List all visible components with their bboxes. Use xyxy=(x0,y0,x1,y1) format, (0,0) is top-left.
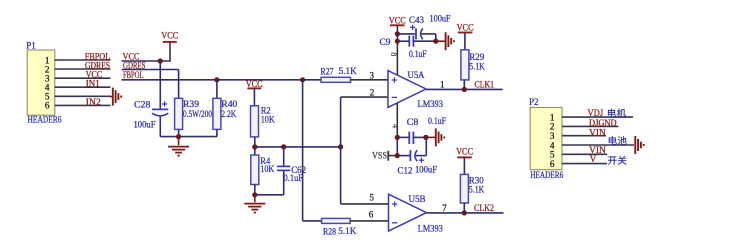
C28 plus sign xyxy=(162,101,167,106)
svg-text:0.1uF: 0.1uF xyxy=(428,116,446,126)
wire inverting vertical xyxy=(340,97,342,204)
svg-text:R29: R29 xyxy=(469,52,484,62)
wire C62 return riser xyxy=(283,170,285,194)
wire U5A pin8 xyxy=(396,41,398,75)
P2 pin 1 wire xyxy=(562,116,633,118)
U5A minus input mark xyxy=(392,96,397,98)
node rail-ground junction xyxy=(176,134,181,139)
svg-text:5: 5 xyxy=(369,193,374,203)
P1 pin 6 wire xyxy=(55,104,111,106)
wire VCC riser xyxy=(169,42,171,62)
power VCC symbol 1 xyxy=(161,31,178,42)
resistor R4 xyxy=(251,155,275,185)
wire VCC stub xyxy=(122,60,171,62)
P2 pin 5 wire xyxy=(562,153,607,155)
wire R39 bottom stub xyxy=(178,129,180,136)
svg-text:C8: C8 xyxy=(407,117,419,127)
wire VCC to R29 xyxy=(464,33,466,50)
ground right of C9 (sideways) xyxy=(436,32,454,50)
node C62 tap xyxy=(281,144,286,149)
wire C12 right xyxy=(416,155,427,157)
P1 pin 4 wire xyxy=(55,86,111,88)
wire ground rail xyxy=(160,136,217,138)
svg-text:4: 4 xyxy=(390,124,400,129)
svg-text:10K: 10K xyxy=(260,164,274,174)
wire U5A output xyxy=(426,88,503,90)
wire R28 feed vertical xyxy=(302,80,304,221)
node divider-vertical junction xyxy=(338,144,343,149)
svg-text:3: 3 xyxy=(369,71,374,81)
svg-text:C12: C12 xyxy=(398,166,413,176)
C43 plus sign xyxy=(410,25,415,30)
P1 pin 5 wire xyxy=(55,95,112,97)
svg-text:6: 6 xyxy=(45,101,50,111)
wire U5A pin2 xyxy=(341,96,388,98)
op-amp U5B body xyxy=(389,194,427,231)
U5B minus input mark xyxy=(392,222,397,224)
svg-text:100uF: 100uF xyxy=(415,165,437,175)
wire GDRES stub xyxy=(122,69,179,71)
svg-text:5.1K: 5.1K xyxy=(338,226,357,236)
svg-text:VCC: VCC xyxy=(389,15,406,25)
ground right of C8 (sideways) xyxy=(426,128,444,146)
node FBPOL-R28 junction xyxy=(300,77,305,82)
resistor R29 xyxy=(461,50,485,80)
C12 plus sign xyxy=(419,158,424,163)
svg-text:0.5W/200: 0.5W/200 xyxy=(183,109,212,119)
svg-text:LM393: LM393 xyxy=(418,224,443,234)
node C9 tap xyxy=(395,39,400,44)
node VSS-C12 junction xyxy=(395,153,400,158)
svg-text:100uF: 100uF xyxy=(430,14,451,24)
svg-text:C9: C9 xyxy=(380,37,392,47)
wire GDRES drop to R39 xyxy=(178,70,180,99)
svg-text:0.1uF: 0.1uF xyxy=(409,49,427,59)
svg-text:VIN: VIN xyxy=(589,127,606,137)
svg-text:P1: P1 xyxy=(26,41,36,51)
wire C9 right xyxy=(413,40,435,42)
svg-text:1: 1 xyxy=(440,79,445,89)
P2 pin 4 wire xyxy=(562,144,634,146)
svg-text:IN1: IN1 xyxy=(86,79,100,89)
resistor R27 xyxy=(321,66,358,82)
wire R2-R4 xyxy=(254,137,256,155)
capacitor C62 xyxy=(277,166,290,170)
wire VCC stem xyxy=(396,25,398,41)
wire C28 drop xyxy=(159,61,161,109)
svg-text:HEADER6: HEADER6 xyxy=(28,115,62,125)
svg-text:VDJ: VDJ xyxy=(588,108,604,118)
wire R4 bottom xyxy=(254,185,256,195)
wire divider to opamp xyxy=(255,146,341,148)
wire C62 top stub xyxy=(283,147,285,167)
power VCC symbol above U5A xyxy=(389,15,406,25)
svg-text:VCC: VCC xyxy=(456,146,473,156)
wire pin4 to VSS node xyxy=(396,137,398,156)
node C8-C12-ground junction xyxy=(423,135,428,140)
node pin4-C8 junction xyxy=(395,135,400,140)
wire VCC to R30 xyxy=(463,157,465,174)
wire C43 corner xyxy=(435,34,437,41)
ground below R4 xyxy=(244,195,265,213)
wire R27 to U5A pin3 xyxy=(351,79,389,81)
P1 pin 3 wire xyxy=(55,77,111,79)
resistor R40 xyxy=(213,98,238,129)
svg-text:R40: R40 xyxy=(221,99,238,109)
power VSS symbol xyxy=(372,150,397,160)
wire R40 stem xyxy=(216,80,218,99)
svg-text:6: 6 xyxy=(550,159,555,169)
capacitor C8 xyxy=(409,132,413,144)
svg-text:R27: R27 xyxy=(321,66,334,76)
connector P1 body xyxy=(27,50,55,115)
svg-text:VCC: VCC xyxy=(161,31,178,41)
svg-text:R28: R28 xyxy=(323,226,336,236)
power VCC symbol above R29 xyxy=(457,22,474,32)
label switch (Chinese) P2 pin6 xyxy=(608,156,626,165)
node output-R29 junction xyxy=(462,87,467,92)
node divider junction xyxy=(252,144,257,149)
capacitor C12 (electrolytic) xyxy=(410,150,417,161)
wire R30 to output xyxy=(463,203,465,213)
svg-text:5.1K: 5.1K xyxy=(469,62,485,72)
svg-text:FBPOL: FBPOL xyxy=(123,70,144,80)
wire to C12 xyxy=(397,155,409,157)
svg-text:5.1K: 5.1K xyxy=(339,66,358,76)
svg-text:VCC: VCC xyxy=(246,79,263,89)
power VCC symbol above R2 xyxy=(246,79,263,89)
wire U5B pin5 xyxy=(341,203,389,205)
P2 pin 6 wire xyxy=(562,163,607,165)
P2 pin 3 wire xyxy=(562,135,606,137)
svg-text:C28: C28 xyxy=(134,100,151,110)
wire U5A pin4 xyxy=(396,103,398,137)
node VCC-C28 junction xyxy=(158,58,163,63)
op-amp U5A body xyxy=(388,71,426,108)
svg-text:VCC: VCC xyxy=(457,22,474,32)
svg-text:6: 6 xyxy=(369,210,374,220)
svg-text:R39: R39 xyxy=(183,99,200,109)
wire C28 to rail xyxy=(159,117,161,137)
svg-text:U5A: U5A xyxy=(408,70,425,80)
svg-text:0.1uF: 0.1uF xyxy=(284,173,304,183)
svg-text:C43: C43 xyxy=(409,15,424,25)
node output-R30 junction xyxy=(462,210,467,215)
svg-text:5.1K: 5.1K xyxy=(469,184,485,194)
P1 pin 2 wire xyxy=(55,68,111,70)
wire to C8 xyxy=(397,136,408,138)
wire R29 to output xyxy=(463,80,465,90)
wire C8 right xyxy=(413,136,426,138)
power VCC symbol above R30 xyxy=(456,146,473,157)
ground on P1 pin5 (sideways) xyxy=(111,88,122,106)
wire C43 right xyxy=(421,33,436,35)
capacitor C9 xyxy=(409,36,413,47)
node C9-C43-ground junction xyxy=(433,39,438,44)
wire to C43 xyxy=(397,33,415,35)
node FBPOL-R40 junction xyxy=(214,77,219,82)
svg-text:LM393: LM393 xyxy=(418,99,444,109)
P1 pin 1 wire xyxy=(55,59,111,61)
node C43 tap xyxy=(395,31,400,36)
wire R28 feed horizontal xyxy=(303,220,322,222)
svg-text:7: 7 xyxy=(442,203,447,213)
P2 pin 2 wire xyxy=(562,125,618,127)
svg-text:2: 2 xyxy=(370,87,375,97)
svg-text:P2: P2 xyxy=(529,97,539,107)
label battery (Chinese) P2 pin4 xyxy=(609,136,627,145)
capacitor C28 (electrolytic) xyxy=(152,109,168,115)
resistor R39 xyxy=(175,98,213,129)
node R4-C62 return junction xyxy=(252,192,257,197)
svg-text:10K: 10K xyxy=(261,114,275,124)
wire FBPOL bus xyxy=(122,79,322,81)
svg-text:CLK1: CLK1 xyxy=(475,79,495,89)
wire VCC to R2 xyxy=(253,88,255,105)
svg-text:U5B: U5B xyxy=(409,194,426,204)
resistor R28 xyxy=(322,218,357,236)
label motor (Chinese) P2 pin1 xyxy=(608,109,626,118)
resistor R2 xyxy=(251,105,276,137)
capacitor C43 (electrolytic) xyxy=(416,28,423,39)
ground on P2 pin4 (sideways) xyxy=(635,136,643,154)
wire R28 to U5B pin6 xyxy=(350,220,388,222)
svg-text:HEADER6: HEADER6 xyxy=(530,170,563,180)
U5A plus input mark xyxy=(392,77,397,82)
ground below rail xyxy=(168,137,189,156)
svg-text:100uF: 100uF xyxy=(134,120,156,130)
resistor R30 xyxy=(460,174,484,203)
svg-text:V: V xyxy=(590,154,597,164)
wire C12 riser xyxy=(425,137,427,155)
wire U5B output xyxy=(427,212,504,214)
connector P2 body xyxy=(530,108,562,170)
wire R40 bottom stub xyxy=(216,129,218,136)
U5B plus input mark xyxy=(392,201,397,206)
svg-text:VSS: VSS xyxy=(372,150,387,160)
svg-text:CLK2: CLK2 xyxy=(474,203,494,213)
wire to C9 xyxy=(397,40,408,42)
wire C62 return xyxy=(255,194,284,196)
svg-text:IN2: IN2 xyxy=(86,97,101,107)
svg-text:2.2K: 2.2K xyxy=(221,109,236,119)
